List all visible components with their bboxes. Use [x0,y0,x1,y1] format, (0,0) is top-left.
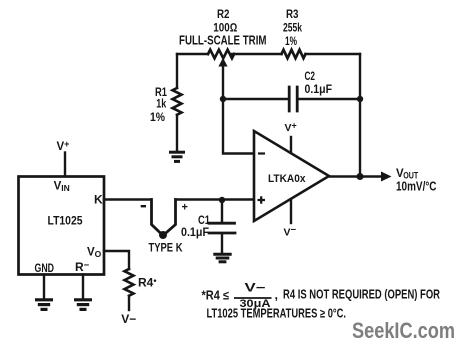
ground LT1025 GND [35,300,53,310]
wire between R2 and R3 [232,53,281,55]
svg-text:V−: V− [245,281,266,295]
svg-text:VIN: VIN [54,181,70,194]
svg-text:V−: V− [284,225,297,239]
wire C2 right [299,98,361,100]
junction dot wiper/C2 [220,96,226,102]
svg-text:K: K [94,193,103,207]
svg-text:,: , [275,288,278,302]
resistor R1 [173,88,182,115]
svg-text:R−: R− [75,260,90,274]
svg-text:SeekIC.com: SeekIC.com [352,318,455,343]
capacitor C2 plates [289,87,297,111]
junction dot C1 / plus input [219,197,225,203]
svg-text:LT1025 TEMPERATURES ≥ 0°C.: LT1025 TEMPERATURES ≥ 0°C. [207,307,347,321]
wire left branch down to R1 [176,54,178,88]
svg-text:1%: 1% [150,110,165,124]
svg-text:+: + [182,202,188,214]
svg-text:V+: V+ [285,121,297,135]
ground stem LT1025 R- pin [82,275,84,299]
svg-text:255k: 255k [283,21,302,35]
svg-text:R2: R2 [217,7,230,21]
op-amp minus input sign [258,152,265,154]
svg-text:FULL-SCALE TRIM: FULL-SCALE TRIM [179,33,267,47]
svg-text:VO: VO [87,247,102,260]
wire K pin to thermocouple [104,198,151,200]
junction dot output node [357,173,364,180]
svg-text:R4 IS NOT REQUIRED (OPEN) FOR: R4 IS NOT REQUIRED (OPEN) FOR [283,288,440,302]
thermocouple minus sign [141,205,146,207]
svg-text:V−: V− [121,312,136,326]
svg-text:V+: V+ [57,139,70,153]
ground R1 [169,152,185,161]
svg-text:10mV/°C: 10mV/°C [396,179,437,194]
svg-text:0.1μF: 0.1μF [305,82,333,96]
note fraction bar [234,297,272,299]
potentiometer R2 element [208,50,234,59]
svg-text:1k: 1k [156,97,166,111]
wire Vo pin to R4 [104,251,129,269]
wire V- pin op-amp [290,200,292,224]
ground stem LT1025 GND pin [43,275,45,299]
wire thermocouple to op-amp plus input [176,198,255,200]
wire V+ pin LT1025 [64,153,66,177]
svg-text:GND: GND [35,261,55,275]
IC U2 LT1025 box [19,177,105,275]
op-amp plus input sign [258,196,266,204]
ground LT1025 R- [74,300,92,310]
wire top-left segment [177,53,208,55]
wire V+ pin op-amp [290,137,292,153]
wire R4 to V- [128,296,130,310]
junction dot C2 right / feedback [357,96,363,102]
wire C2 left [223,98,288,100]
ground C1 [213,254,231,262]
wire C1 top lead [221,200,223,222]
wire feedback right vertical [359,54,361,177]
capacitor C1 plates [209,223,235,233]
wire R3 to right corner [306,53,361,55]
svg-text:R4•: R4• [138,275,157,289]
svg-text:0.1μF: 0.1μF [181,225,209,239]
svg-text:1%: 1% [285,34,297,48]
resistor R4 [125,269,134,296]
thermocouple junction bead [159,231,167,239]
svg-text:R3: R3 [286,7,299,21]
wire R1 to ground [176,115,178,151]
svg-text:TYPE K: TYPE K [149,241,183,255]
svg-text:LTKA0x: LTKA0x [268,173,306,185]
output arrowhead VOUT [381,172,392,182]
svg-text:C2: C2 [305,69,316,83]
op-amp U1 LTKA0x triangle [254,131,329,221]
svg-text:*R4 ≤: *R4 ≤ [202,288,230,302]
wire op-amp output [329,175,384,177]
wire R2 wiper down to inverting input [223,63,254,154]
svg-text:LT1025: LT1025 [48,214,83,228]
thermocouple TYPE K element [152,200,176,236]
potentiometer R2 wiper arrow [218,58,227,67]
resistor R3 [282,50,306,58]
wire C1 to ground [221,234,223,253]
